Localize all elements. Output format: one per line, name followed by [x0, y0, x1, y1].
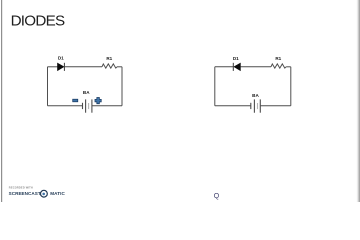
wire top-right segment (circuit 1) — [117, 66, 122, 68]
wire top-middle segment between D1 and R1 (circuit 2) — [241, 66, 271, 68]
slide right edge shading — [356, 0, 360, 202]
svg-text:MATIC: MATIC — [50, 191, 65, 196]
svg-text:BA: BA — [83, 90, 90, 95]
svg-text:RECORDED WITH: RECORDED WITH — [9, 186, 33, 190]
wire top-left segment (circuit 2) — [215, 66, 233, 68]
watermark: O-logo circle — [41, 190, 48, 197]
wire left vertical (circuit 2) — [214, 67, 216, 106]
wire right vertical (circuit 1) — [121, 67, 123, 106]
resistor R1 (right circuit) — [271, 64, 286, 68]
svg-text:D1: D1 — [58, 56, 64, 61]
resistor R1 (left circuit) — [102, 64, 117, 68]
diode D1 (right circuit, cathode left, points left) — [233, 63, 240, 71]
svg-text:BA: BA — [252, 93, 259, 98]
battery BA (left circuit) — [83, 99, 92, 112]
wire top-left segment (circuit 1) — [48, 66, 58, 68]
wire top-right segment (circuit 2) — [286, 66, 291, 68]
svg-text:R1: R1 — [275, 56, 281, 61]
svg-text:R1: R1 — [106, 56, 112, 61]
wire top-middle segment between D1 and R1 (circuit 1) — [65, 66, 102, 68]
wire right vertical (circuit 2) — [290, 67, 292, 106]
wire left vertical (circuit 1) — [47, 67, 49, 106]
diode D1 (left circuit, anode left) — [58, 63, 65, 71]
wire bottom-right segment (circuit 2) — [260, 105, 291, 107]
svg-text:D1: D1 — [233, 56, 239, 61]
wire bottom-right segment (circuit 1) — [92, 105, 122, 107]
svg-text:Q: Q — [214, 193, 220, 200]
minus sign annotation (left circuit battery negative) — [73, 99, 78, 102]
wire bottom-left segment (circuit 1) — [48, 105, 83, 107]
slide left edge line — [1, 0, 2, 202]
svg-text:SCREENCAST: SCREENCAST — [9, 191, 41, 196]
battery BA (right circuit) — [251, 99, 260, 112]
plus sign annotation (left circuit battery positive) — [95, 98, 101, 104]
wire bottom-left segment (circuit 2) — [215, 105, 251, 107]
svg-text:DIODES: DIODES — [11, 13, 65, 30]
